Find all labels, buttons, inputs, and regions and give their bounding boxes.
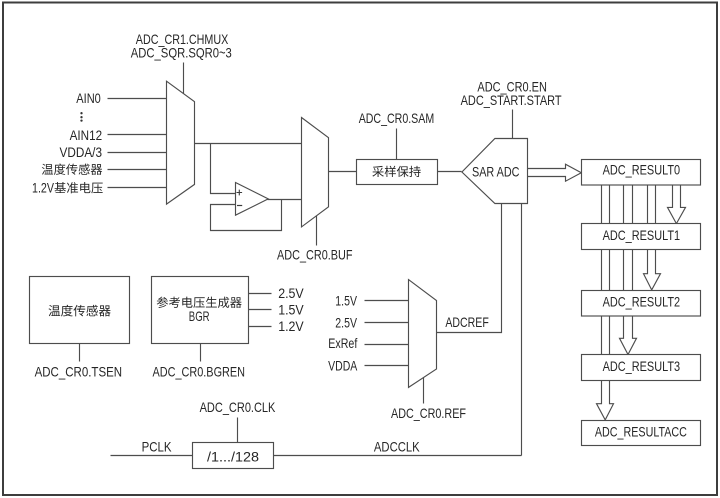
wire REF control from ref mux U4 [423,376,425,404]
op-amp U2 buffer [236,183,269,216]
mux U3 buffer bypass mux [302,118,329,227]
wire ADCCLK net to SAR ADC [521,202,523,456]
svg-text:ADC_RESULT2: ADC_RESULT2 [603,293,681,309]
wire AIN0 input [108,98,168,100]
box BGR reference voltage generator [152,277,249,344]
svg-text:VDDA/3: VDDA/3 [60,144,103,160]
wire TSEN control from temp sensor [79,344,81,362]
wire ADCCLK from divider [274,455,522,457]
wire EN/START control into SAR ADC [512,110,514,139]
svg-text:ADC_SQR.SQR0~3: ADC_SQR.SQR0~3 [131,45,232,61]
mux U1 channel multiplexer [167,81,195,204]
hollow arrow SAR ADC to ADC_RESULT0 [528,164,582,181]
svg-text:ADC_RESULTACC: ADC_RESULTACC [595,423,687,439]
register ADC_RESULT0 [582,160,701,186]
svg-text:AIN0: AIN0 [76,90,101,106]
text label jizhun (基准电压) [54,182,102,193]
wire mux U3 output to sample-hold [329,171,357,173]
hollow arrow ADC_RESULT0 to ADC_RESULT1 [668,185,686,224]
wire BUF control from mux U3 [316,215,318,246]
register ADC_RESULT2 [582,291,701,317]
svg-text:1.5V: 1.5V [335,292,357,308]
op-amp + input mark [237,190,243,196]
text label caiyang (采样保持) [372,166,420,177]
box sample and hold [357,160,438,185]
wire op-amp output to mux U3 [268,199,302,201]
svg-text:ADC_CR0.TSEN: ADC_CR0.TSEN [35,364,123,380]
SAR ADC U5 [462,139,528,204]
svg-text:ADC_CR0.REF: ADC_CR0.REF [391,405,466,421]
svg-text:ADC_CR0.CLK: ADC_CR0.CLK [200,399,276,415]
wire BGR 1.5V output [249,309,272,311]
svg-text:SAR ADC: SAR ADC [472,164,520,180]
svg-text:1.5V: 1.5V [278,302,304,318]
hollow arrow to ADC_RESULT3 [620,185,637,355]
wire op-amp feedback to - input [211,200,282,231]
svg-text:ADC_CR0.SAM: ADC_CR0.SAM [359,110,435,126]
wire BGREN control from BGR [200,344,202,362]
svg-text:1.2V: 1.2V [32,180,54,196]
wire sample-hold to SAR ADC [438,171,462,173]
box temperature sensor [30,277,130,344]
op-amp - input mark [237,205,242,207]
svg-text:AIN12: AIN12 [70,127,103,143]
wire 1.2V-ref input [108,187,168,189]
wire VDDA into ref mux U4 [365,365,410,367]
register ADC_RESULTACC [582,421,701,446]
register ADC_RESULT3 [582,355,701,381]
svg-text:ADC_RESULT3: ADC_RESULT3 [603,358,681,374]
svg-text:PCLK: PCLK [142,438,172,454]
wire mux U1 output to mux U3 [195,143,302,145]
svg-text:ADC_RESULT0: ADC_RESULT0 [603,162,681,178]
text label wendu input (温度传感器) [42,164,102,175]
svg-text:1.2V: 1.2V [278,318,304,334]
svg-text:2.5V: 2.5V [278,285,304,301]
wire AIN12 input [108,134,168,136]
ellipsis dots between AIN0 and AIN12 [80,112,82,122]
svg-text:BGR: BGR [189,308,210,324]
hollow arrow to ADC_RESULTACC [597,185,614,420]
hollow arrow to ADC_RESULT2 [644,185,661,290]
svg-text:ExRef: ExRef [328,335,357,351]
wire 2.5V into ref mux U4 [365,322,410,324]
wire BGR 1.2V output [249,326,272,328]
wire 1.5V into ref mux U4 [365,300,410,302]
wire ADCREF net to SAR ADC [437,202,502,333]
wire CLK control into divider [237,418,239,443]
wire VDDA/3 input [108,152,168,154]
wire branch to op-amp + input [211,144,236,194]
wire CHMUX control into mux U1 [183,63,185,97]
wire temp-sensor input [108,169,168,171]
svg-text:ADC_CR0.BGREN: ADC_CR0.BGREN [153,364,246,380]
wire ExRef into ref mux U4 [365,344,410,346]
svg-text:2.5V: 2.5V [335,314,357,330]
register ADC_RESULT1 [582,224,701,250]
svg-text:ADCCLK: ADCCLK [374,438,420,454]
wire BGR 2.5V output [249,293,272,295]
text label cankao (参考电压生成器) [157,297,242,308]
svg-text:ADC_CR0.BUF: ADC_CR0.BUF [277,246,353,262]
wire PCLK into divider [111,455,193,457]
svg-text:ADC_START.START: ADC_START.START [461,92,562,108]
svg-text:VDDA: VDDA [328,357,358,373]
svg-text:ADC_RESULT1: ADC_RESULT1 [603,227,681,243]
svg-text:ADCREF: ADCREF [445,314,488,330]
wire SAM control into sample-hold [396,129,398,160]
text label wendu box (温度传感器) [49,305,111,317]
svg-text:/1.../128: /1.../128 [207,449,259,465]
box clock divider /1.../128 [193,443,274,469]
mux U4 reference select [409,280,437,388]
